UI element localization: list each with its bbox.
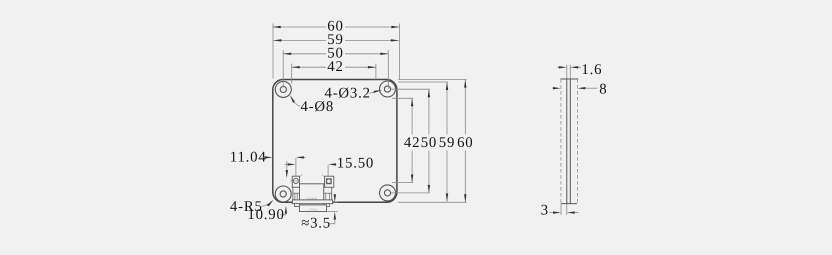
svg-text:59: 59 <box>439 135 455 151</box>
connector: left jack screw post <box>292 176 299 187</box>
dimension 10.90: lower pointer with up arrow <box>285 206 287 214</box>
dimension 42 right: line <box>411 98 413 134</box>
extension line 50-left (hole center) <box>282 50 284 87</box>
extension line right 50 (bottom hole center) <box>391 192 430 194</box>
counterbore circle top-left (Ø8) <box>275 81 291 97</box>
connector: left pin column <box>293 187 300 200</box>
connector: left foot <box>294 204 300 207</box>
dimension 11.04: extension line (left screw center) <box>295 158 297 176</box>
dimension 15.50: right arrow <box>335 163 338 165</box>
connector: left pin column divider <box>293 192 300 194</box>
side view: top edge <box>560 78 578 80</box>
dimension 8: left arrow <box>553 87 554 89</box>
dimension 42 top: line <box>292 66 326 68</box>
connector: right pin column divider <box>324 192 332 194</box>
extension line left edge (top dims) <box>272 24 274 79</box>
dimension 11.04: right arrow <box>303 156 306 158</box>
dimension 50 right: line <box>428 89 430 134</box>
counterbore circle top-right (Ø8) <box>380 81 396 97</box>
dimension 59 top: line <box>273 39 326 41</box>
svg-text:60: 60 <box>457 135 473 151</box>
connector: right pin column <box>324 187 332 200</box>
connector: right jack screw post <box>325 176 334 187</box>
connector: left post tick mark <box>300 174 302 176</box>
svg-text:50: 50 <box>421 135 437 151</box>
counterbore circle bottom-left (Ø8) <box>275 186 291 202</box>
dimension 3: left arrow <box>550 212 554 214</box>
connector: right post tick mark <box>322 175 324 177</box>
counterbore circle bottom-right (Ø8) <box>380 185 396 201</box>
dimension ~3.5: up arrow and tail <box>334 212 336 220</box>
svg-text:42: 42 <box>327 59 343 75</box>
extension line right 60 (top edge) <box>398 79 467 81</box>
connector: right screw circle <box>327 179 331 183</box>
svg-text:4-Ø8: 4-Ø8 <box>301 99 335 115</box>
svg-text:1.77±0.1: 1.77±0.1 <box>308 208 318 211</box>
dimension 1.6: right arrow and tail <box>570 66 578 68</box>
dimension 1.6: left arrow <box>557 66 559 68</box>
extension line right 50 (top hole center) <box>391 88 430 90</box>
svg-text:3: 3 <box>541 202 549 218</box>
hole bottom-left (Ø3.2) <box>280 191 286 197</box>
connector: right foot <box>324 204 330 207</box>
extension line right 42 (bottom) <box>392 182 413 184</box>
side view: left dashed outline <box>560 79 562 204</box>
extension line 42-left <box>291 64 293 84</box>
dimension 3: right arrow and tail <box>567 211 575 213</box>
dimension ~3.5: extension line bottom <box>328 211 338 213</box>
connector: body <box>300 184 324 200</box>
dimension 8: right arrow and tail <box>578 87 586 89</box>
side view: right dashed outline <box>577 79 579 204</box>
hole top-right (Ø3.2) <box>384 86 390 92</box>
extension line right 42 (top) <box>392 97 413 99</box>
leader 4-R5: line <box>260 201 273 206</box>
connector: right post inner square <box>326 179 331 184</box>
dimension 3: extension lines <box>560 204 562 215</box>
extension line 50-right (hole center) <box>387 50 389 89</box>
svg-text:11.04: 11.04 <box>230 150 267 166</box>
dimension 15.50: extension line (right screw center) <box>327 165 329 176</box>
side view: pcb right face <box>569 79 571 204</box>
svg-text:1.6: 1.6 <box>581 62 602 78</box>
extension line 42-right <box>375 64 377 80</box>
extension line right 60/59 (bottom edge) <box>398 201 467 203</box>
extension line right (60/59 top dims) <box>398 24 400 80</box>
extension line right 59 (top) <box>398 81 448 83</box>
svg-text:≈3.5: ≈3.5 <box>301 216 331 232</box>
dimension ~3.5: down arrow <box>334 195 336 197</box>
connector: right pin column stripes <box>325 193 327 200</box>
svg-text:42: 42 <box>404 135 420 151</box>
dimension 11.04: left arrow <box>262 156 265 158</box>
svg-text:8: 8 <box>599 81 607 97</box>
dimension 10.90: upper pointer line with down arrow <box>286 161 288 171</box>
dimension 60 right: line <box>464 80 466 135</box>
dimension ~3.5: extension line top <box>334 201 338 203</box>
dimension 1.6: extension lines <box>566 65 568 79</box>
connector: left pin column stripes <box>294 193 296 200</box>
leader 4-Ø3.2: line <box>370 90 382 93</box>
leader 4-Ø8: line <box>291 97 300 107</box>
dimension 15.50: left arrow <box>285 163 289 165</box>
connector: left screw circle <box>293 178 298 183</box>
plate outline (60x60 board, rounded corners R5) <box>273 80 397 203</box>
svg-text:15.50: 15.50 <box>337 155 374 171</box>
connector: bottom shell band <box>299 205 326 212</box>
connector: lower wide flange <box>292 200 332 204</box>
side view: bottom edge <box>561 203 577 205</box>
connector: left screw centerline <box>290 180 299 182</box>
dimension 59 right: line <box>446 82 448 135</box>
dimension 60 top: line <box>273 26 326 28</box>
svg-text:10.90: 10.90 <box>247 207 284 223</box>
side view: pcb left face <box>566 79 568 204</box>
hole top-left (Ø3.2) <box>280 86 286 92</box>
dimension 50 top: line <box>283 53 326 55</box>
hole bottom-right (Ø3.2) <box>384 190 390 196</box>
